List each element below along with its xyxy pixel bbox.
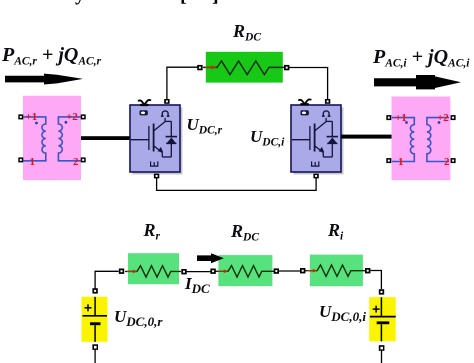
transformer T2 polarity dots — [405, 121, 440, 124]
transformer T1 (rectifier side) pink block — [23, 96, 81, 180]
port: U_DC,0,r top — [92, 288, 97, 293]
port: rectifier bottom — [154, 174, 159, 179]
converter VSC inverter block shadow — [294, 108, 344, 175]
port: R_DC bottom right — [274, 268, 279, 273]
port: R_r right — [181, 269, 186, 274]
wire: rectifier bottom to inverter bottom — [157, 177, 317, 190]
IGBT collector label C (inverter) — [322, 111, 331, 116]
port: R_DC bottom left — [210, 269, 215, 274]
resistor R_DC (top) zigzag — [203, 61, 284, 75]
voltage source U_DC,0,r battery symbol — [83, 297, 108, 342]
wire: R_r to R_DC — [187, 271, 211, 273]
converter VSC rectifier block shadow — [133, 108, 183, 175]
port: rectifier top — [164, 99, 169, 104]
resistor R_i current arrow — [307, 269, 317, 273]
wire: transformer T1 to converter U_DC,r (thick AC link) — [81, 136, 131, 140]
IGBT gate label g (inverter) — [301, 110, 309, 115]
caption fragment: y descender — [75, 0, 85, 6]
resistor R_DC (top) current arrow — [205, 65, 217, 69]
label U_DC,0,i — [319, 302, 366, 325]
wire: R_i to U_DC,0,i source — [370, 271, 381, 290]
resistor R_DC (bottom) current arrow — [218, 270, 228, 274]
wire: R_DC to R_i — [279, 270, 300, 272]
label U_DC,0,r — [114, 307, 162, 330]
transformer T2 (inverter side) pink block — [392, 97, 451, 181]
arrow I_DC — [197, 253, 224, 263]
resistor R_DC (bottom) zigzag — [215, 266, 274, 277]
label R_r — [144, 220, 161, 243]
label I_DC — [185, 274, 210, 297]
transformer T1 polarity dots — [35, 121, 67, 125]
gull mark on rectifier — [139, 100, 151, 105]
wire: R_DC right port to inverter top — [287, 68, 328, 102]
resistor R_r current arrow — [127, 270, 137, 274]
transformer T1 terminal labels — [26, 111, 38, 123]
resistor R_r green block — [128, 253, 179, 284]
port: R_r left — [119, 269, 124, 274]
label P_AC,i + jQ_AC,i — [373, 46, 469, 70]
transformer T2 terminal labels — [395, 112, 407, 124]
voltage source U_DC,0,i yellow block — [369, 297, 396, 341]
arrow right AC power — [374, 75, 461, 89]
port: inverter top — [325, 99, 330, 104]
transformer T2 ports — [386, 115, 455, 163]
transformer T2 secondary winding — [427, 118, 449, 162]
voltage source U_DC,0,i battery symbol — [370, 297, 396, 341]
voltage source U_DC,0,r yellow block — [82, 297, 108, 342]
IGBT symbol inside inverter — [292, 118, 338, 157]
wire: R_DC left port to rectifier top — [167, 67, 200, 101]
IGBT gate label g (rectifier) — [140, 110, 148, 115]
label R_DC top — [233, 21, 261, 44]
transformer T1 secondary winding — [58, 117, 80, 161]
wire: R_r to U_DC,0,r source — [95, 271, 118, 288]
resistor R_DC (bottom) green block — [218, 255, 272, 286]
label P_AC,r + jQ_AC,r — [2, 44, 101, 68]
converter VSC rectifier block — [130, 105, 180, 172]
port: U_DC,0,r bottom — [92, 344, 98, 350]
arrow left AC power — [5, 74, 83, 85]
port: R_i left — [300, 268, 305, 273]
label R_i — [328, 220, 343, 243]
resistor R_i green block — [310, 255, 363, 287]
transformer T1 primary winding — [24, 117, 46, 161]
gull mark on inverter — [299, 99, 311, 104]
port: R_i right — [365, 268, 370, 273]
resistor R_DC (top) green block — [206, 52, 283, 83]
wire: converter inverter to transformer T2 (thick AC link) — [341, 135, 393, 139]
resistor R_r zigzag — [125, 266, 181, 277]
port: inverter bottom — [313, 174, 318, 179]
label U_DC,i — [250, 127, 284, 149]
IGBT emitter label E (rectifier) — [150, 161, 159, 166]
wire: U_DC,0,i bottom lead — [381, 350, 383, 363]
caption fragment: [ ] bracket bottoms — [180, 0, 187, 7]
port: U_DC,0,i bottom — [379, 345, 385, 351]
transformer T2 primary winding — [392, 118, 414, 162]
resistor R_i zigzag — [305, 265, 365, 276]
label R_DC bottom — [231, 221, 259, 244]
port: U_DC,0,i top — [379, 289, 384, 294]
port: R_DC top left — [197, 65, 202, 70]
port: R_DC top right — [284, 65, 289, 70]
IGBT symbol inside rectifier — [131, 118, 177, 157]
label U_DC,r — [187, 115, 223, 137]
wire: U_DC,0,r bottom lead — [94, 349, 96, 363]
IGBT collector label C (rectifier) — [161, 111, 170, 116]
IGBT emitter label E (inverter) — [311, 161, 320, 166]
transformer T1 ports — [18, 114, 85, 162]
converter VSC inverter block — [291, 105, 341, 172]
